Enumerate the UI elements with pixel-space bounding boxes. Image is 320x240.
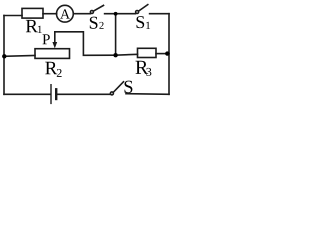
switch S1 xyxy=(136,5,148,14)
ammeter U1 xyxy=(57,5,74,22)
resistor R3 xyxy=(138,48,157,57)
wire R3 to right border xyxy=(156,53,169,55)
label R1 xyxy=(26,20,42,33)
wire bottom-left to battery xyxy=(4,93,50,95)
wire middle-left to R2 xyxy=(4,55,35,58)
battery xyxy=(51,85,56,104)
label S2 xyxy=(90,17,104,29)
label P xyxy=(43,34,50,44)
wire left border xyxy=(3,16,5,95)
wire slider to junction xyxy=(55,32,116,56)
rheostat R2 xyxy=(35,49,70,59)
node junction dot top xyxy=(114,12,118,16)
wire top-left stub xyxy=(4,15,22,17)
label A ammeter xyxy=(60,9,70,18)
label S1 xyxy=(137,16,151,29)
wire battery to S xyxy=(57,93,110,95)
slider P arrow xyxy=(52,32,57,49)
resistor R1 xyxy=(22,8,43,18)
wire R1 to ammeter xyxy=(43,13,57,15)
label R3 xyxy=(136,61,152,76)
node junction dot right border xyxy=(165,51,169,55)
switch S2 xyxy=(90,5,103,13)
wire junction to R3 xyxy=(116,53,138,56)
label S xyxy=(125,81,133,93)
switch S xyxy=(110,82,123,95)
wire right border xyxy=(168,14,170,95)
node junction dot middle xyxy=(113,53,117,57)
wire S1 to top-right corner xyxy=(150,13,169,15)
wire S to bottom-right corner xyxy=(126,93,169,96)
wire ammeter to S2 xyxy=(73,13,90,15)
node junction dot left border xyxy=(2,54,6,58)
label R2 xyxy=(45,62,61,77)
node junction vertical wire xyxy=(115,14,117,56)
wire S2 to junction to S1 xyxy=(105,13,136,15)
